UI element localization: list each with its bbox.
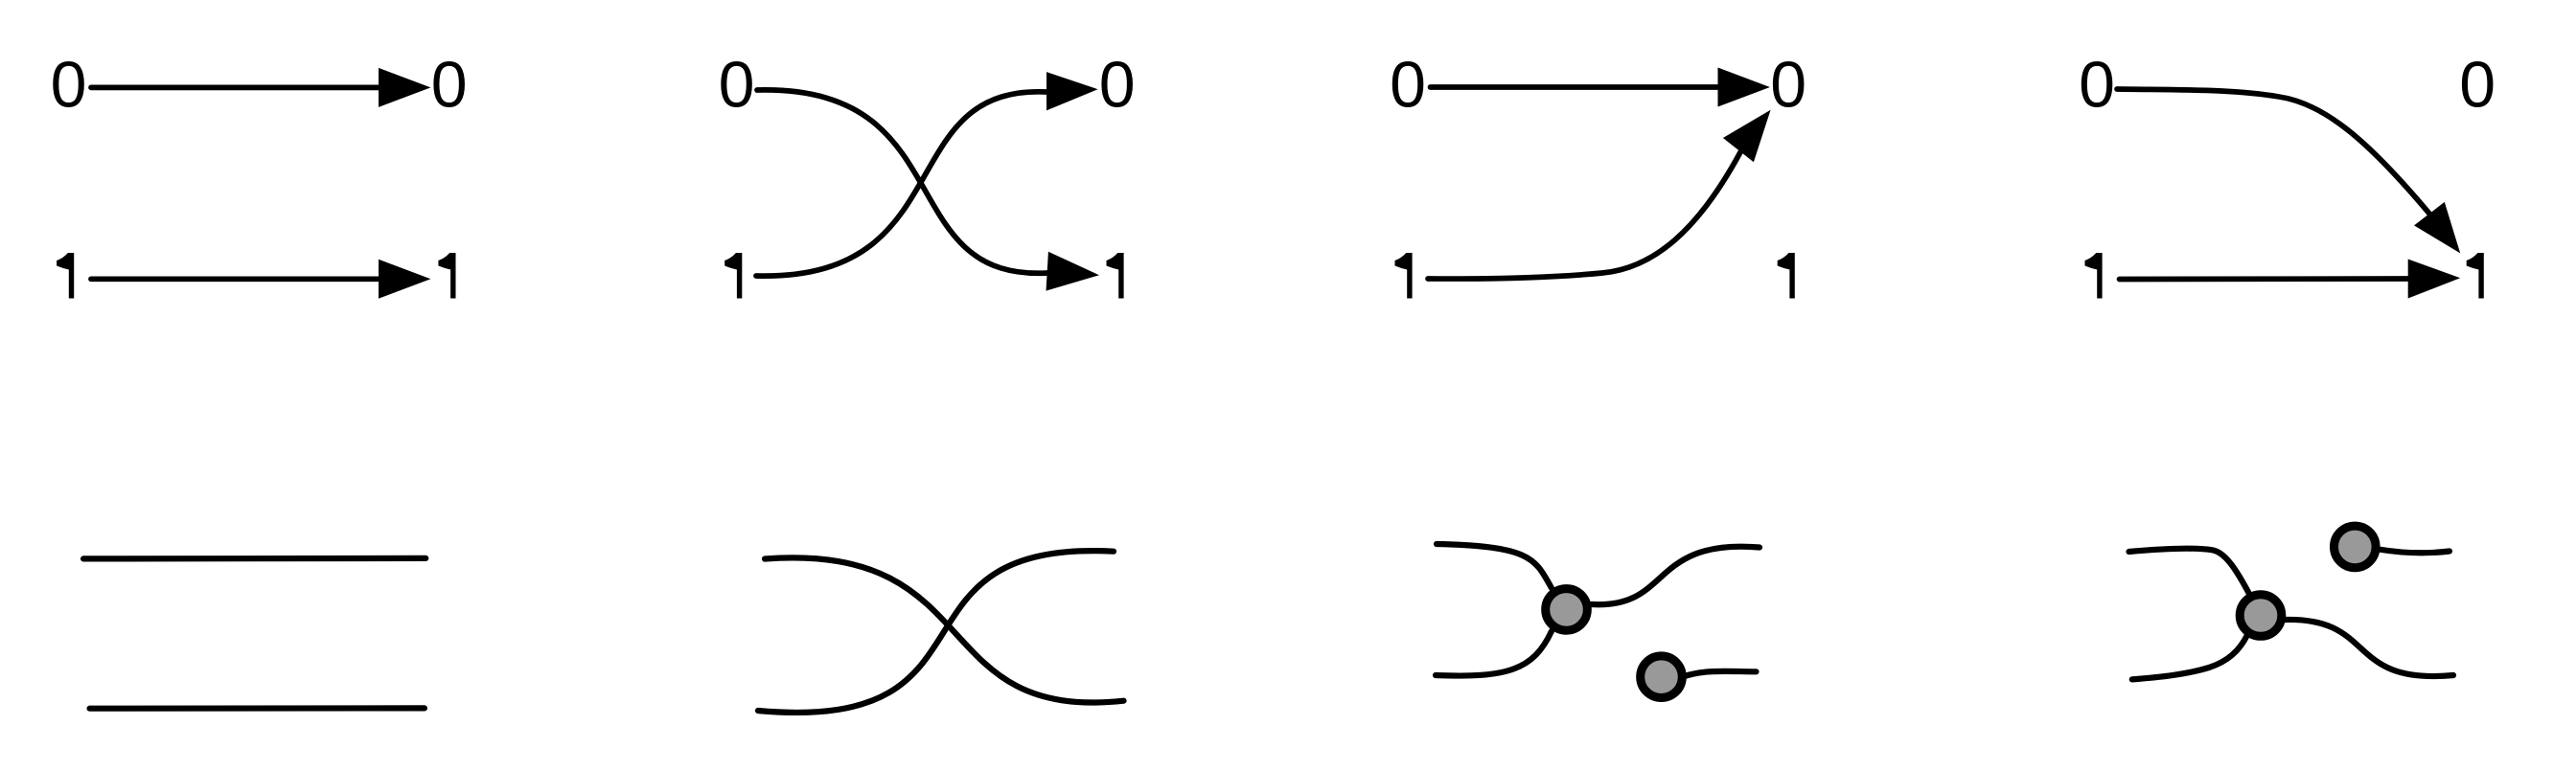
wire 0->0 (col3) (1431, 84, 1721, 90)
wire 1->1 (col1) (91, 276, 381, 282)
svg-text:0: 0 (719, 49, 755, 122)
wire merge to top-right (col3) (1592, 547, 1760, 605)
svg-text:0: 0 (431, 49, 468, 122)
node 1 left (col1) (57, 253, 74, 299)
wire bottom-left into merge (col4) (2132, 635, 2247, 679)
wire 1->0 (col2) (756, 92, 1046, 276)
wire 1->1 (col4) (2120, 276, 2411, 282)
node 1 left (col2) (724, 253, 742, 299)
arrowhead 1->0 (col2) (1046, 72, 1098, 110)
merge dot (col3) (1546, 589, 1588, 631)
wire 0->0 (col1) (91, 85, 381, 91)
merge dot (col4) (2240, 595, 2282, 637)
wire bottom (col1) (90, 705, 425, 711)
svg-text:0: 0 (51, 49, 87, 122)
arrowhead 0->1 (col2) (1046, 252, 1100, 291)
svg-text:0: 0 (2079, 49, 2115, 122)
arrowhead 0->1 (col4) (2414, 202, 2460, 254)
wire bottom-left into merge (col3) (1436, 631, 1552, 676)
wire 0->1 (col4) (2117, 89, 2429, 214)
unit wire (col3) (1687, 671, 1757, 676)
wire top-left into merge (col4) (2129, 549, 2250, 594)
arrowhead 1->0 (col3) (1723, 110, 1771, 163)
arrowhead 0->0 (col3) (1718, 68, 1770, 107)
wire top (col1) (83, 556, 425, 562)
node 1 left (col4) (2085, 253, 2103, 299)
wire bottom-to-top (col2) (758, 551, 1114, 713)
node 1 right (col3) (1778, 253, 1795, 299)
svg-text:0: 0 (1390, 49, 1426, 122)
node 1 left (col3) (1395, 253, 1413, 299)
wire 0->1 (col2) (757, 90, 1047, 273)
unit dot (col4) (2334, 526, 2377, 568)
svg-text:0: 0 (2459, 49, 2495, 122)
unit dot (col3) (1641, 656, 1683, 698)
svg-text:0: 0 (1099, 49, 1136, 122)
node 1 right (col4) (2467, 253, 2484, 299)
arrowhead 0->0 (col1) (379, 68, 430, 107)
unit wire (col4) (2379, 550, 2449, 554)
wire merge to bottom-right (col4) (2285, 620, 2453, 676)
wire top-to-bottom (col2) (765, 557, 1124, 702)
node 1 right (col1) (438, 253, 455, 299)
arrowhead 1->1 (col1) (379, 260, 430, 299)
node 1 right (col2) (1107, 253, 1124, 299)
svg-text:0: 0 (1770, 49, 1806, 122)
arrowhead 1->1 (col4) (2408, 260, 2461, 299)
wire top-left into merge (col3) (1437, 544, 1552, 588)
wire 1->0 (col3) (1428, 152, 1740, 279)
